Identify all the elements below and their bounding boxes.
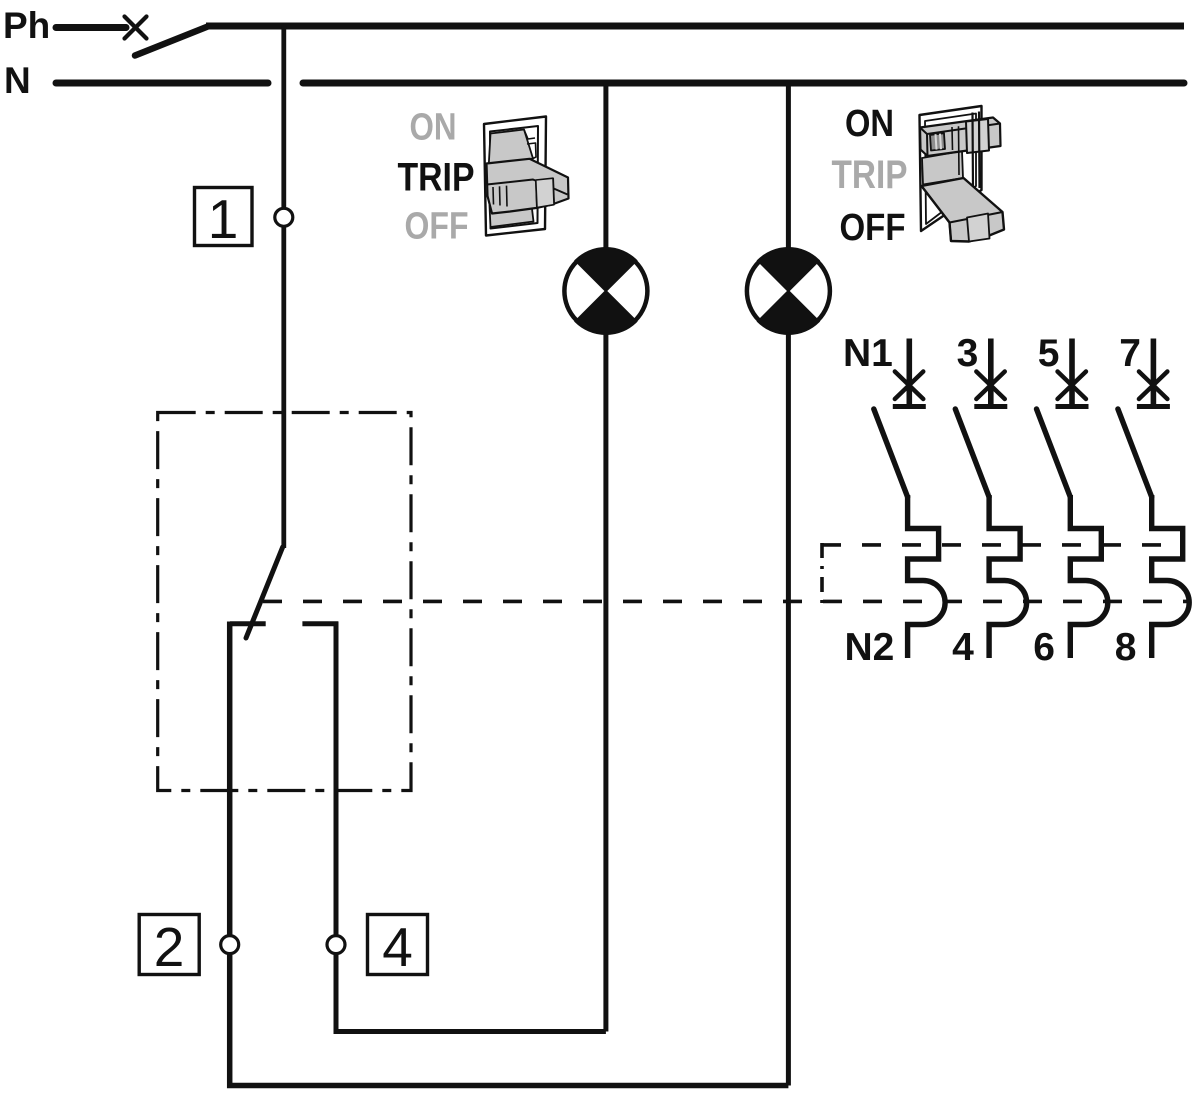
indicator lamp H1 xyxy=(564,248,647,334)
wire terminal 4: down and along to lamp 1 xyxy=(336,622,606,1032)
N bus wire left segment xyxy=(56,80,268,87)
N bus wire right segment xyxy=(303,80,1184,87)
svg-text:TRIP: TRIP xyxy=(398,156,475,200)
dash-dot enclosure box of auxiliary contact xyxy=(158,413,411,791)
svg-text:6: 6 xyxy=(1033,626,1055,669)
wire of indicator lamp 1 from N bus xyxy=(603,83,608,1032)
svg-text:5: 5 xyxy=(1038,332,1060,375)
terminal 2 label box xyxy=(139,915,199,979)
pole 2 terminal bar xyxy=(974,404,1007,409)
left toggle switch graphic (lever in TRIP mid position) xyxy=(484,117,569,236)
changeover switch blade (common from terminal 1) xyxy=(246,547,283,638)
linkage bracket dash-dot vertical xyxy=(820,543,824,603)
pole 3 terminal lead (top, 5) xyxy=(1069,339,1075,405)
pole 4 breaker cross X xyxy=(1139,372,1168,400)
wire of indicator lamp 2 from N bus xyxy=(786,83,791,1086)
svg-text:Ph: Ph xyxy=(3,5,50,46)
pole 3 breaker cross X xyxy=(1058,372,1087,400)
terminal 1 label box xyxy=(195,188,253,251)
pole 1 switch blade xyxy=(874,409,908,497)
svg-text:OFF: OFF xyxy=(840,207,906,249)
terminal 4 node circle xyxy=(327,936,345,954)
svg-text:ON: ON xyxy=(410,107,457,149)
pole 3 terminal bar xyxy=(1056,404,1089,409)
Ph bus wire right segment xyxy=(206,23,1184,30)
svg-text:N2: N2 xyxy=(844,626,894,669)
svg-text:4: 4 xyxy=(952,626,974,669)
svg-text:4: 4 xyxy=(382,916,413,978)
pole 4 switch blade xyxy=(1118,409,1152,497)
indicator lamp H2 xyxy=(747,248,830,334)
trip linkage dashed line (upper, across poles) xyxy=(822,543,1179,547)
terminal 4 label box xyxy=(368,915,428,979)
pole 1 thermal-magnetic element xyxy=(908,495,946,658)
svg-text:N: N xyxy=(4,60,31,101)
pole 3 thermal-magnetic element xyxy=(1070,495,1108,658)
svg-text:ON: ON xyxy=(845,103,894,145)
isolator switch blade on Ph xyxy=(135,26,209,56)
breaker cross X on Ph feed xyxy=(125,17,147,39)
pole 1 terminal lead (top, N1) xyxy=(906,339,912,405)
svg-text:7: 7 xyxy=(1119,332,1141,375)
terminal 2 node circle xyxy=(221,936,239,954)
left contact seat bar (to terminal 2) xyxy=(230,621,266,626)
right toggle switch graphic (lever in OFF down position) xyxy=(920,106,1005,242)
pole 4 thermal-magnetic element xyxy=(1152,495,1190,658)
pole 4 terminal bar xyxy=(1137,404,1170,409)
right contact seat bar (to terminal 4) xyxy=(302,621,338,626)
pole 1 terminal bar xyxy=(893,404,926,409)
svg-text:3: 3 xyxy=(957,332,979,375)
pole 2 breaker cross X xyxy=(976,372,1005,400)
pole 2 terminal lead (top, 3) xyxy=(988,339,994,405)
svg-text:TRIP: TRIP xyxy=(832,153,908,197)
pole 1 breaker cross X xyxy=(895,372,924,400)
wire terminal 2: down and along bottom to lamp 2 xyxy=(230,622,789,1086)
pole 2 thermal-magnetic element xyxy=(989,495,1027,658)
svg-text:8: 8 xyxy=(1115,626,1137,669)
pole 2 switch blade xyxy=(955,409,989,497)
svg-text:N1: N1 xyxy=(843,332,893,375)
terminal 1 node circle xyxy=(275,208,293,226)
pole 4 terminal lead (top, 7) xyxy=(1151,339,1157,405)
Ph bus wire left segment xyxy=(56,24,126,31)
trip linkage dashed line (lower, from changeover blade to poles) xyxy=(263,600,1188,604)
svg-text:2: 2 xyxy=(154,916,185,978)
svg-text:OFF: OFF xyxy=(405,206,469,248)
wire from Ph bus down to auxiliary changeover switch xyxy=(281,26,286,548)
pole 3 switch blade xyxy=(1037,409,1071,497)
svg-text:1: 1 xyxy=(208,188,239,250)
